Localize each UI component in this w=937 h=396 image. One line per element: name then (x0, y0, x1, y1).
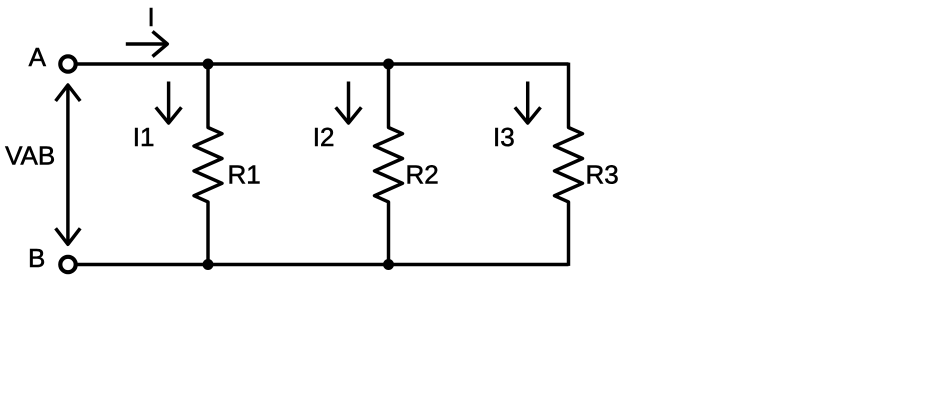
svg-text:B: B (28, 243, 45, 273)
svg-text:I2: I2 (313, 122, 335, 152)
svg-text:I: I (148, 2, 155, 32)
svg-text:R2: R2 (406, 160, 439, 190)
svg-text:I3: I3 (493, 122, 515, 152)
svg-text:R3: R3 (586, 160, 619, 190)
svg-text:R1: R1 (228, 160, 261, 190)
svg-text:A: A (29, 42, 47, 72)
svg-text:VAB: VAB (5, 141, 55, 171)
svg-text:I1: I1 (133, 122, 155, 152)
